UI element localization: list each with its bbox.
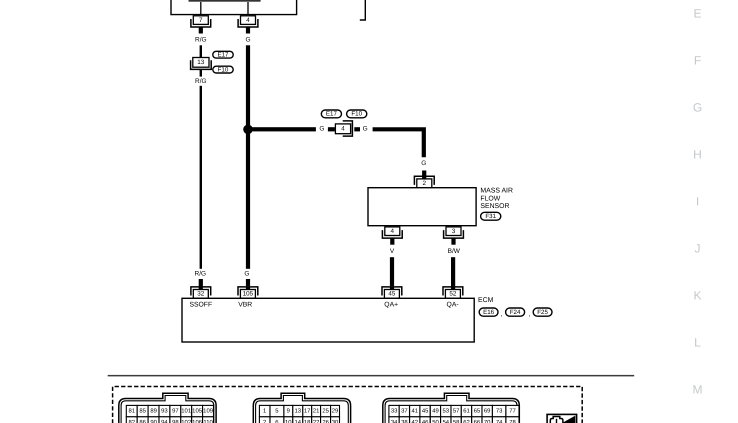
- wire stub below pin 3: [451, 238, 455, 244]
- svg-text:62: 62: [463, 419, 470, 423]
- svg-text:89: 89: [150, 407, 157, 414]
- svg-text:2: 2: [263, 419, 266, 423]
- svg-text:4: 4: [341, 126, 345, 133]
- svg-text:17: 17: [304, 407, 311, 414]
- svg-text:MASS AIR: MASS AIR: [480, 188, 513, 195]
- svg-text:57: 57: [453, 407, 460, 414]
- svg-text:QA+: QA+: [384, 302, 398, 309]
- wire color label R/G: [195, 78, 207, 85]
- svg-text:ECM: ECM: [478, 297, 494, 304]
- terminal name QA+: [384, 302, 398, 309]
- svg-text:86: 86: [139, 419, 146, 423]
- junction dot: [243, 125, 253, 135]
- svg-text:18: 18: [304, 419, 311, 423]
- svg-text:74: 74: [496, 419, 503, 423]
- svg-text:69: 69: [484, 407, 491, 414]
- internal lead to pin 4: [247, 2, 248, 15]
- svg-text:58: 58: [453, 419, 460, 423]
- svg-text:106: 106: [192, 419, 203, 423]
- svg-text:3: 3: [452, 228, 456, 235]
- svg-text:73: 73: [496, 407, 503, 414]
- wire color label R/G: [195, 271, 207, 278]
- svg-text:E: E: [693, 7, 701, 21]
- connector label E16: [479, 308, 498, 316]
- svg-text:QA-: QA-: [447, 302, 459, 309]
- wire color label G: [421, 160, 426, 167]
- mass air flow sensor box: [368, 188, 476, 226]
- svg-text:E17: E17: [326, 111, 338, 118]
- ECM box: [182, 298, 474, 342]
- wire G long run: [246, 45, 250, 268]
- svg-text:J: J: [695, 242, 701, 256]
- connector view icon: [547, 414, 577, 423]
- wire color label V: [390, 248, 395, 255]
- wire stub above pin 105: [246, 279, 250, 290]
- svg-text:97: 97: [172, 407, 179, 414]
- svg-text:34: 34: [391, 419, 398, 423]
- wire R/G to connector 13: [200, 45, 202, 57]
- connector label E17: [321, 110, 341, 118]
- svg-text:105: 105: [243, 291, 254, 298]
- svg-text:25: 25: [322, 407, 329, 414]
- svg-text:F10: F10: [351, 111, 362, 118]
- svg-text:13: 13: [295, 407, 302, 414]
- terminal name QA-: [447, 302, 459, 309]
- svg-text:26: 26: [322, 419, 329, 423]
- svg-text:45: 45: [388, 291, 396, 298]
- svg-text:F31: F31: [485, 213, 496, 220]
- svg-text:94: 94: [161, 419, 168, 423]
- wire color label G: [319, 126, 324, 133]
- svg-text:R/G: R/G: [195, 271, 207, 278]
- svg-text:50: 50: [432, 419, 439, 423]
- svg-text:1: 1: [263, 407, 266, 414]
- svg-text:VBR: VBR: [238, 302, 252, 309]
- grid reference letters: [693, 7, 703, 397]
- svg-text:52: 52: [449, 291, 457, 298]
- pin 2 of mass air flow sensor: [414, 176, 434, 187]
- svg-text:38: 38: [401, 419, 408, 423]
- wire color label G: [363, 126, 368, 133]
- svg-text:R/G: R/G: [195, 37, 207, 44]
- separator rule: [108, 375, 635, 377]
- svg-text:G: G: [421, 160, 426, 167]
- wire R/G below connector 13: [200, 70, 202, 77]
- corner of adjacent box (cut off at page top): [360, 0, 366, 20]
- svg-text:V: V: [390, 248, 395, 255]
- svg-text:22: 22: [313, 419, 320, 423]
- pin 4 of mass air flow sensor: [382, 227, 402, 238]
- svg-text:K: K: [693, 289, 701, 303]
- svg-text:E17: E17: [217, 51, 229, 58]
- connector label F31: [481, 212, 501, 220]
- svg-text:R/G: R/G: [195, 78, 207, 85]
- internal element bottom edge inside top box: [189, 0, 261, 2]
- svg-text:54: 54: [443, 419, 450, 423]
- svg-text:G: G: [244, 271, 249, 278]
- mass air flow sensor name: [480, 188, 513, 210]
- svg-text:29: 29: [332, 407, 339, 414]
- comma separator: [500, 311, 502, 318]
- svg-text:78: 78: [509, 419, 516, 423]
- svg-text:7: 7: [199, 17, 203, 24]
- svg-text:45: 45: [422, 407, 429, 414]
- svg-text:82: 82: [129, 419, 136, 423]
- svg-text:85: 85: [139, 407, 146, 414]
- svg-text:F24: F24: [510, 309, 521, 316]
- wire color label R/G: [195, 37, 207, 44]
- svg-text:I: I: [696, 195, 699, 209]
- wire stub below pin 4: [246, 27, 250, 34]
- svg-text:110: 110: [203, 419, 213, 423]
- svg-text:46: 46: [422, 419, 429, 423]
- svg-text:L: L: [694, 336, 701, 350]
- connector label E17: [213, 51, 233, 58]
- svg-text:H: H: [693, 148, 702, 162]
- svg-text:,: ,: [500, 311, 502, 318]
- svg-text:G: G: [319, 126, 324, 133]
- svg-text:53: 53: [443, 407, 450, 414]
- wire color label B/W: [448, 248, 461, 255]
- svg-text:61: 61: [463, 407, 470, 414]
- wire G horizontal from junction: [248, 127, 316, 131]
- pin 3 of mass air flow sensor: [444, 227, 464, 238]
- svg-text:4: 4: [391, 228, 395, 235]
- svg-text:2: 2: [423, 180, 427, 187]
- svg-text:42: 42: [412, 419, 419, 423]
- svg-text:49: 49: [432, 407, 439, 414]
- component box top (cut off at page top): [171, 0, 297, 15]
- svg-text:98: 98: [172, 419, 179, 423]
- svg-text:101: 101: [181, 407, 191, 414]
- svg-text:,: ,: [528, 311, 530, 318]
- svg-text:FLOW: FLOW: [480, 195, 500, 202]
- pin 32 of ECM: [191, 287, 211, 298]
- wire B/W run: [451, 257, 455, 289]
- svg-text:41: 41: [412, 407, 419, 414]
- pin 4 of top box: [238, 16, 258, 27]
- svg-text:SSOFF: SSOFF: [189, 302, 212, 309]
- svg-text:F10: F10: [218, 66, 229, 73]
- svg-text:77: 77: [509, 407, 516, 414]
- svg-text:13: 13: [197, 59, 205, 66]
- svg-text:21: 21: [313, 407, 320, 414]
- svg-text:109: 109: [203, 407, 213, 414]
- pin 105 of ECM: [238, 287, 258, 298]
- svg-text:93: 93: [161, 407, 168, 414]
- wire R/G long run: [200, 86, 202, 269]
- svg-text:66: 66: [474, 419, 481, 423]
- svg-text:G: G: [693, 101, 702, 115]
- svg-text:4: 4: [246, 17, 250, 24]
- wire color label G: [245, 37, 250, 44]
- svg-text:10: 10: [285, 419, 292, 423]
- wire stub below pin 7: [199, 27, 203, 34]
- svg-text:SENSOR: SENSOR: [480, 203, 509, 210]
- svg-text:G: G: [363, 126, 368, 133]
- ECM connector face 1-30: [253, 393, 350, 423]
- terminal name SSOFF: [189, 302, 212, 309]
- svg-text:B/W: B/W: [448, 248, 461, 255]
- ECM connector face 33-78: [383, 393, 520, 423]
- wire G to corner: [373, 129, 424, 157]
- wire stub above pin 32: [199, 279, 203, 290]
- svg-text:70: 70: [484, 419, 491, 423]
- dashed border of connector detail area: [113, 387, 583, 423]
- svg-text:30: 30: [332, 419, 339, 423]
- inline connector 13: [191, 58, 212, 70]
- wire color label G: [244, 271, 249, 278]
- svg-text:33: 33: [391, 407, 398, 414]
- wire V run: [390, 257, 394, 289]
- ECM connector face 81-110: [119, 393, 216, 423]
- svg-text:14: 14: [295, 419, 302, 423]
- svg-text:F25: F25: [537, 309, 548, 316]
- svg-text:32: 32: [197, 291, 205, 298]
- wire stub above pin 2: [422, 171, 426, 180]
- connector label F10: [213, 66, 233, 73]
- comma separator: [528, 311, 530, 318]
- connector label F24: [506, 308, 525, 316]
- inline connector 4: [335, 121, 352, 136]
- wire stub below pin 4: [390, 238, 394, 244]
- svg-text:81: 81: [129, 407, 136, 414]
- pin 52 of ECM: [443, 287, 463, 298]
- internal lead to pin 7: [200, 2, 201, 15]
- pin 45 of ECM: [382, 287, 402, 298]
- connector label F25: [533, 308, 552, 316]
- terminal name VBR: [238, 302, 252, 309]
- svg-text:9: 9: [287, 407, 290, 414]
- svg-text:37: 37: [401, 407, 408, 414]
- wire stub right of connector 4: [354, 127, 360, 131]
- svg-text:105: 105: [192, 407, 203, 414]
- connector label F10: [347, 110, 367, 118]
- component name ECM: [478, 297, 494, 304]
- svg-text:G: G: [245, 37, 250, 44]
- svg-text:E16: E16: [483, 309, 495, 316]
- svg-text:M: M: [693, 383, 703, 397]
- svg-text:F: F: [694, 54, 701, 68]
- svg-text:102: 102: [181, 419, 191, 423]
- svg-text:90: 90: [150, 419, 157, 423]
- pin 7 of top box: [191, 16, 211, 27]
- svg-text:65: 65: [474, 407, 481, 414]
- wire stub left of connector 4: [328, 127, 335, 131]
